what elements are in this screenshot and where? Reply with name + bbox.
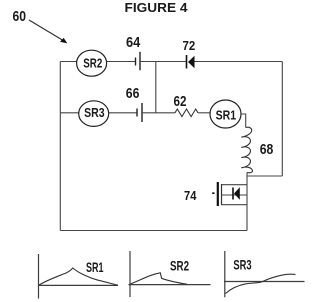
- gate bar: [217, 182, 219, 206]
- wire bottom: [60, 230, 247, 232]
- svg-text:SR2: SR2: [83, 56, 102, 71]
- svg-text:72: 72: [183, 38, 196, 53]
- body diode bar: [232, 188, 234, 200]
- transistor 74 (MOSFET with body diode): [212, 182, 247, 206]
- sense device SR3: [79, 101, 109, 127]
- wire row2 stub to SR3: [60, 112, 79, 114]
- svg-text:62: 62: [174, 94, 187, 110]
- drain lead: [222, 184, 248, 186]
- wire SR2 to battery 64: [107, 61, 136, 63]
- wire SR3 to battery 66: [109, 112, 137, 114]
- svg-text:FIGURE 4: FIGURE 4: [125, 1, 188, 15]
- body diode triangle: [234, 187, 240, 200]
- wire left rail: [59, 62, 61, 231]
- wire battery 66 to resistor 62: [142, 112, 175, 114]
- svg-text:64: 64: [126, 35, 140, 51]
- wire diode to top-right corner: [195, 61, 283, 63]
- gate lead tick: [212, 192, 214, 194]
- lead arrow to circuit: [29, 20, 67, 43]
- svg-text:SR3: SR3: [84, 105, 105, 120]
- wire inductor bottom to bottom rail: [246, 173, 248, 231]
- graph 1 axes: [39, 254, 119, 299]
- wire SR1 to inductor top: [241, 114, 246, 128]
- wire battery 64 to diode 72: [140, 61, 186, 63]
- battery 66: [137, 103, 142, 122]
- wire right rail: [281, 62, 283, 177]
- inductor 68: [241, 127, 252, 173]
- graph 3 axes: [224, 251, 305, 297]
- battery 64: [136, 52, 141, 71]
- sense device SR2: [77, 50, 107, 76]
- svg-text:68: 68: [260, 142, 274, 158]
- svg-text:SR3: SR3: [233, 256, 251, 272]
- graph 3 curve SR3: [226, 274, 296, 293]
- svg-text:SR2: SR2: [170, 257, 189, 273]
- graph 2 axes: [129, 251, 211, 297]
- channel bar: [221, 184, 223, 205]
- source lead: [222, 204, 248, 206]
- svg-text:SR1: SR1: [216, 107, 237, 122]
- diode 72: [187, 55, 195, 69]
- svg-text:60: 60: [13, 9, 27, 25]
- svg-text:74: 74: [184, 188, 197, 203]
- graph 2 curve SR2: [131, 273, 188, 284]
- svg-text:SR1: SR1: [86, 259, 104, 275]
- svg-text:66: 66: [126, 86, 140, 102]
- resistor 62: [175, 109, 198, 117]
- graph 1 curve SR1: [39, 268, 118, 285]
- sense device SR1: [210, 100, 241, 128]
- wire row1 stub to SR2: [60, 61, 76, 63]
- wire resistor to SR1: [198, 112, 210, 114]
- body lead: [222, 194, 248, 196]
- wire junction node between row 1 and row 2: [155, 62, 157, 113]
- wire right rail to drain junction: [247, 175, 282, 177]
